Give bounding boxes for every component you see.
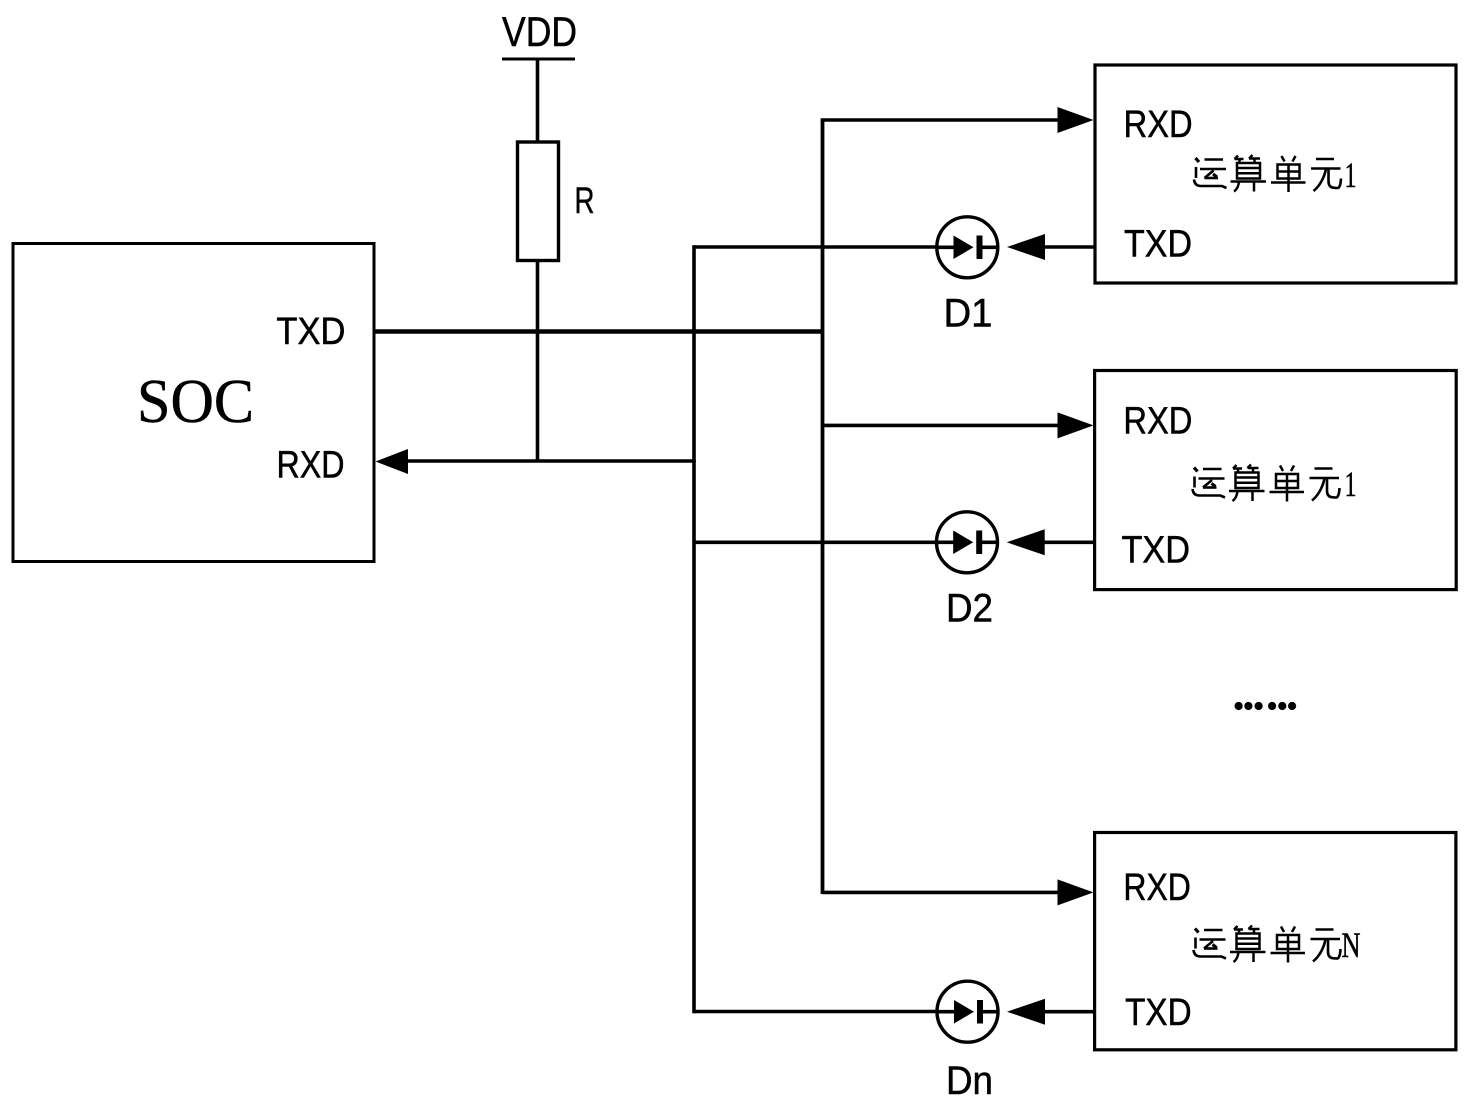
- wire TXD branch to unit1 RXD: [821, 118, 1062, 122]
- svg-text:RXD: RXD: [1123, 867, 1191, 909]
- wire RXD bus to diode D2: [694, 540, 939, 544]
- VDD rail bar: [502, 58, 575, 61]
- arrowhead into unit1 RXD: [1058, 107, 1094, 133]
- wire SOC TXD horizontal: [374, 329, 824, 334]
- resistor R body: [518, 142, 559, 261]
- wire VDD bar to resistor R: [536, 59, 540, 143]
- arrowhead into unit2 RXD: [1058, 412, 1094, 438]
- wire RXD bus to diode Dn: [694, 1010, 939, 1014]
- wire unit1 TXD to D1: [1043, 245, 1095, 249]
- svg-text:D2: D2: [946, 586, 993, 630]
- diode D2: [937, 512, 998, 573]
- svg-text:1: 1: [1345, 155, 1357, 195]
- svg-text:VDD: VDD: [502, 8, 577, 55]
- svg-text:RXD: RXD: [277, 445, 345, 487]
- wire TXD bus vertical: [821, 120, 825, 894]
- SOC box U1: [13, 244, 374, 562]
- wire RXD bus vertical: [692, 245, 696, 1013]
- compute unit 1 box: [1095, 65, 1456, 283]
- svg-text:SOC: SOC: [137, 368, 254, 436]
- wire TXD branch to unit2 RXD: [822, 424, 1062, 428]
- svg-text:RXD: RXD: [1124, 104, 1193, 146]
- svg-text:N: N: [1342, 925, 1361, 965]
- svg-text:TXD: TXD: [1125, 992, 1192, 1034]
- wire RXD bus to diode D1: [694, 245, 939, 249]
- wire unitN TXD to Dn: [1043, 1010, 1095, 1014]
- arrowhead from unit2 TXD into D2: [1007, 529, 1045, 555]
- diode Dn: [937, 981, 998, 1042]
- unit2 title 运算单元1: [1193, 464, 1357, 504]
- diode D1: [937, 217, 998, 278]
- unit1 title 运算单元1: [1194, 155, 1357, 195]
- arrowhead from unit1 TXD into D1: [1007, 234, 1045, 260]
- arrowhead from unitN TXD into Dn: [1007, 999, 1045, 1025]
- svg-text:TXD: TXD: [276, 311, 345, 353]
- svg-text:TXD: TXD: [1122, 529, 1191, 571]
- wire resistor bottom to RXD net: [536, 261, 540, 462]
- arrowhead into SOC RXD: [376, 449, 409, 474]
- wire TXD branch to unitN RXD: [822, 891, 1062, 895]
- svg-text:R: R: [575, 180, 595, 221]
- arrowhead into unitN RXD: [1058, 879, 1094, 905]
- compute unit 2 box: [1095, 371, 1457, 590]
- compute unit N box: [1095, 833, 1456, 1050]
- ellipsis dots between unit2 and unitN: [1235, 702, 1297, 710]
- svg-text:TXD: TXD: [1124, 224, 1192, 266]
- svg-text:RXD: RXD: [1123, 401, 1192, 443]
- unitN title 运算单元N: [1194, 925, 1361, 965]
- svg-text:1: 1: [1345, 464, 1357, 504]
- svg-text:D1: D1: [944, 291, 993, 335]
- svg-text:Dn: Dn: [946, 1059, 993, 1103]
- wire RXD net horizontal to SOC: [405, 459, 696, 463]
- wire unit2 TXD to D2: [1042, 540, 1095, 544]
